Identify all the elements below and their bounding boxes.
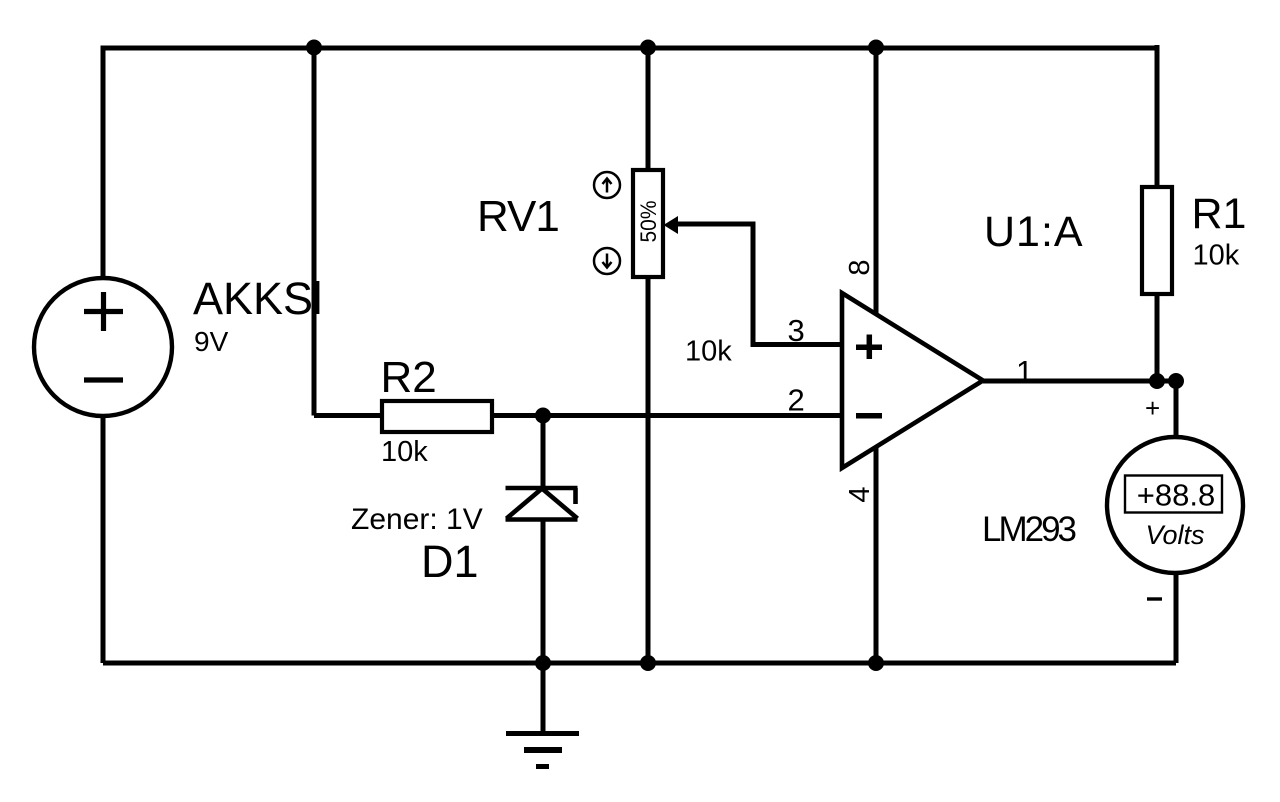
svg-text:50%: 50%: [636, 201, 661, 243]
svg-text:AKKS: AKKS: [193, 273, 313, 324]
svg-text:Volts: Volts: [1145, 520, 1204, 550]
svg-text:9V: 9V: [194, 326, 229, 357]
svg-text:+: +: [1145, 393, 1160, 423]
svg-text:2: 2: [788, 383, 805, 418]
svg-text:10k: 10k: [381, 436, 428, 468]
svg-text:1: 1: [1016, 354, 1033, 389]
svg-text:R2: R2: [381, 353, 437, 402]
svg-text:10k: 10k: [1193, 240, 1240, 272]
svg-text:Zener: 1V: Zener: 1V: [351, 503, 483, 536]
svg-text:RV1: RV1: [477, 192, 559, 241]
svg-text:+88.8: +88.8: [1137, 478, 1215, 513]
svg-text:D1: D1: [421, 536, 479, 587]
svg-text:8: 8: [844, 259, 876, 275]
svg-text:LM293: LM293: [982, 510, 1076, 549]
svg-text:3: 3: [788, 313, 805, 348]
svg-text:U1:A: U1:A: [984, 208, 1084, 256]
svg-text:4: 4: [844, 486, 876, 502]
svg-text:R1: R1: [1192, 190, 1247, 238]
svg-text:10k: 10k: [685, 336, 732, 368]
